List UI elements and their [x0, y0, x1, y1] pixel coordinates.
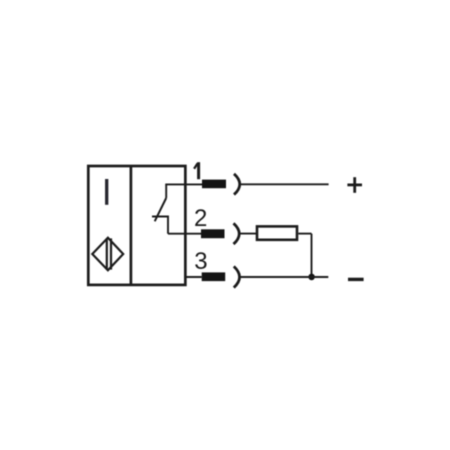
- svg-text:3: 3: [194, 248, 207, 275]
- pin 1 terminal block: [202, 180, 226, 189]
- pin 2 terminal block: [201, 229, 225, 238]
- connector arc 2: [234, 223, 240, 244]
- sensing face bar: [105, 179, 108, 205]
- plus terminal symbol: [347, 183, 362, 186]
- minus terminal symbol: [348, 278, 364, 281]
- wire corner down to node: [311, 234, 313, 277]
- wire: switch to pin 2: [168, 233, 201, 235]
- resistor R (load): [257, 226, 297, 239]
- wire: box to pin 3: [185, 276, 202, 278]
- switch fixed contact: [152, 217, 168, 234]
- pin 3 terminal block: [202, 272, 226, 281]
- wire resistor to corner: [298, 233, 311, 235]
- diamond inner line left: [106, 238, 108, 269]
- sensor body outline: [88, 166, 185, 285]
- wire 3 to minus: [240, 276, 329, 278]
- wire 1 to plus: [240, 183, 329, 185]
- switch blade (NO contact): [155, 198, 167, 221]
- connector arc 1: [234, 174, 240, 195]
- junction node dot: [308, 274, 315, 281]
- label 1: [194, 162, 199, 179]
- svg-text:2: 2: [194, 205, 207, 232]
- wire: switch to pin 1: [165, 183, 202, 185]
- diamond inner line right: [110, 238, 112, 269]
- sensor body divider: [130, 166, 133, 285]
- wire 2 to resistor: [239, 233, 256, 235]
- proximity sensor diamond symbol: [92, 238, 123, 271]
- connector arc 3: [234, 266, 240, 287]
- switch contact S1: upper lead: [165, 184, 167, 198]
